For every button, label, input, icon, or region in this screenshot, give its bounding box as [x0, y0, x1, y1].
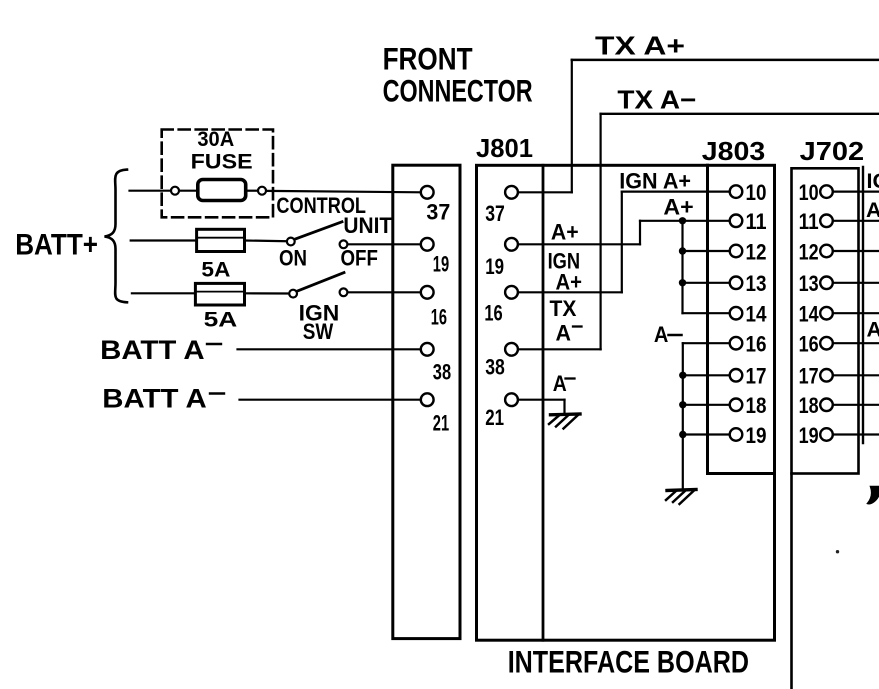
svg-text:BATT A: BATT A	[100, 335, 205, 365]
svg-text:A: A	[553, 371, 567, 396]
svg-text:14: 14	[799, 302, 820, 327]
svg-text:18: 18	[746, 393, 767, 418]
svg-text:5A: 5A	[204, 307, 238, 331]
svg-text:12: 12	[746, 239, 767, 264]
svg-text:13: 13	[746, 271, 767, 296]
svg-text:21: 21	[485, 405, 504, 430]
svg-text:11: 11	[746, 209, 767, 234]
svg-text:TX A+: TX A+	[595, 30, 685, 60]
svg-text:21: 21	[433, 410, 449, 435]
svg-text:19: 19	[485, 254, 504, 279]
svg-text:CONNECTOR: CONNECTOR	[383, 72, 533, 108]
svg-text:A+: A+	[551, 220, 579, 245]
svg-text:16: 16	[484, 300, 502, 325]
svg-text:10: 10	[799, 180, 819, 205]
svg-text:TX A−: TX A−	[617, 85, 696, 115]
svg-text:BATT A: BATT A	[102, 384, 207, 414]
svg-text:TX: TX	[550, 296, 577, 321]
svg-text:J803: J803	[702, 138, 766, 166]
svg-text:14: 14	[746, 302, 768, 327]
svg-text:30A: 30A	[197, 127, 234, 151]
svg-text:A: A	[556, 320, 572, 345]
svg-text:IGN A+: IGN A+	[619, 169, 691, 194]
svg-text:J702: J702	[800, 138, 865, 166]
svg-text:19: 19	[433, 252, 449, 277]
svg-text:12: 12	[799, 239, 819, 264]
svg-text:ON: ON	[279, 246, 307, 271]
svg-text:16: 16	[746, 332, 767, 357]
svg-text:A+: A+	[556, 269, 583, 294]
svg-text:38: 38	[433, 359, 451, 384]
svg-text:A: A	[867, 318, 879, 342]
svg-text:16: 16	[431, 305, 447, 330]
svg-text:37: 37	[485, 201, 505, 226]
svg-text:BATT+: BATT+	[15, 229, 98, 262]
svg-text:11: 11	[799, 209, 819, 234]
svg-text:OFF: OFF	[341, 246, 378, 271]
svg-text:J801: J801	[476, 135, 533, 163]
svg-text:13: 13	[799, 271, 819, 296]
svg-text:A+: A+	[663, 195, 693, 220]
svg-text:FUSE: FUSE	[191, 150, 253, 174]
svg-text:FRONT: FRONT	[383, 40, 473, 76]
svg-text:17: 17	[746, 364, 767, 389]
svg-text:19: 19	[746, 423, 767, 448]
svg-text:37: 37	[426, 200, 450, 225]
svg-text:38: 38	[485, 354, 505, 379]
svg-text:16: 16	[799, 332, 819, 357]
svg-text:5A: 5A	[201, 258, 230, 282]
svg-text:INTERFACE BOARD: INTERFACE BOARD	[508, 644, 749, 680]
svg-text:UNIT: UNIT	[343, 213, 392, 238]
svg-text:19: 19	[799, 423, 819, 448]
svg-text:18: 18	[799, 393, 819, 418]
svg-text:10: 10	[746, 180, 767, 205]
svg-text:SW: SW	[303, 319, 334, 344]
svg-text:17: 17	[799, 364, 819, 389]
svg-text:IGN: IGN	[867, 169, 879, 193]
svg-text:A+: A+	[866, 198, 879, 222]
svg-text:A: A	[654, 322, 669, 347]
